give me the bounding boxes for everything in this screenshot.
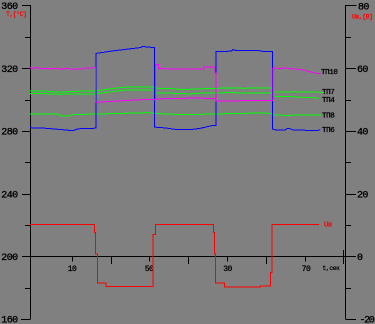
right axis line bbox=[345, 5, 347, 320]
svg-text:0: 0 bbox=[357, 253, 363, 264]
svg-text:280: 280 bbox=[1, 128, 18, 139]
curve ТП4 (green) bbox=[30, 90, 319, 98]
curve Uв (red square wave) bbox=[30, 224, 319, 286]
svg-text:200: 200 bbox=[1, 253, 18, 264]
svg-text:10: 10 bbox=[68, 265, 77, 274]
x axis tick labels bbox=[68, 265, 311, 274]
curve ТП6 (blue) bbox=[30, 46, 320, 130]
curve ТП8 (green) bbox=[30, 113, 321, 116]
svg-text:30: 30 bbox=[223, 265, 232, 274]
svg-text:T,[°C]: T,[°C] bbox=[6, 10, 26, 18]
right axis value labels bbox=[357, 3, 375, 324]
x axis short ticks (labeled) bbox=[73, 256, 306, 262]
curve ТП10 (magenta) bbox=[30, 65, 320, 103]
left axis value labels bbox=[1, 2, 18, 324]
right axis minor ticks bbox=[346, 38, 351, 289]
svg-text:Uв: Uв bbox=[324, 222, 332, 230]
svg-text:t,сек: t,сек bbox=[323, 265, 341, 272]
svg-text:20: 20 bbox=[357, 191, 368, 202]
svg-text:ТП8: ТП8 bbox=[322, 113, 335, 121]
svg-text:80: 80 bbox=[358, 3, 369, 14]
left axis line bbox=[30, 5, 32, 320]
svg-text:40: 40 bbox=[357, 128, 368, 139]
svg-text:ТП10: ТП10 bbox=[321, 69, 338, 77]
curve ТП7 (green) bbox=[30, 87, 324, 93]
svg-text:ТП4: ТП4 bbox=[322, 97, 335, 105]
svg-text:60: 60 bbox=[357, 65, 368, 76]
svg-text:-20: -20 bbox=[360, 316, 375, 324]
right axis major ticks bbox=[346, 6, 357, 320]
svg-text:Uв,[В]: Uв,[В] bbox=[352, 14, 372, 21]
svg-text:160: 160 bbox=[1, 316, 18, 324]
svg-text:ТП6: ТП6 bbox=[322, 127, 335, 135]
left axis major ticks bbox=[21, 6, 30, 320]
svg-text:70: 70 bbox=[302, 265, 311, 274]
x axis line bbox=[30, 256, 346, 258]
svg-text:240: 240 bbox=[1, 191, 18, 202]
svg-text:320: 320 bbox=[1, 65, 18, 76]
curve ТП9 overlap segment (magenta low) bbox=[156, 98, 216, 101]
left axis minor ticks bbox=[25, 38, 30, 289]
svg-text:ТП7: ТП7 bbox=[322, 89, 334, 97]
x axis long ticks bbox=[112, 250, 344, 264]
